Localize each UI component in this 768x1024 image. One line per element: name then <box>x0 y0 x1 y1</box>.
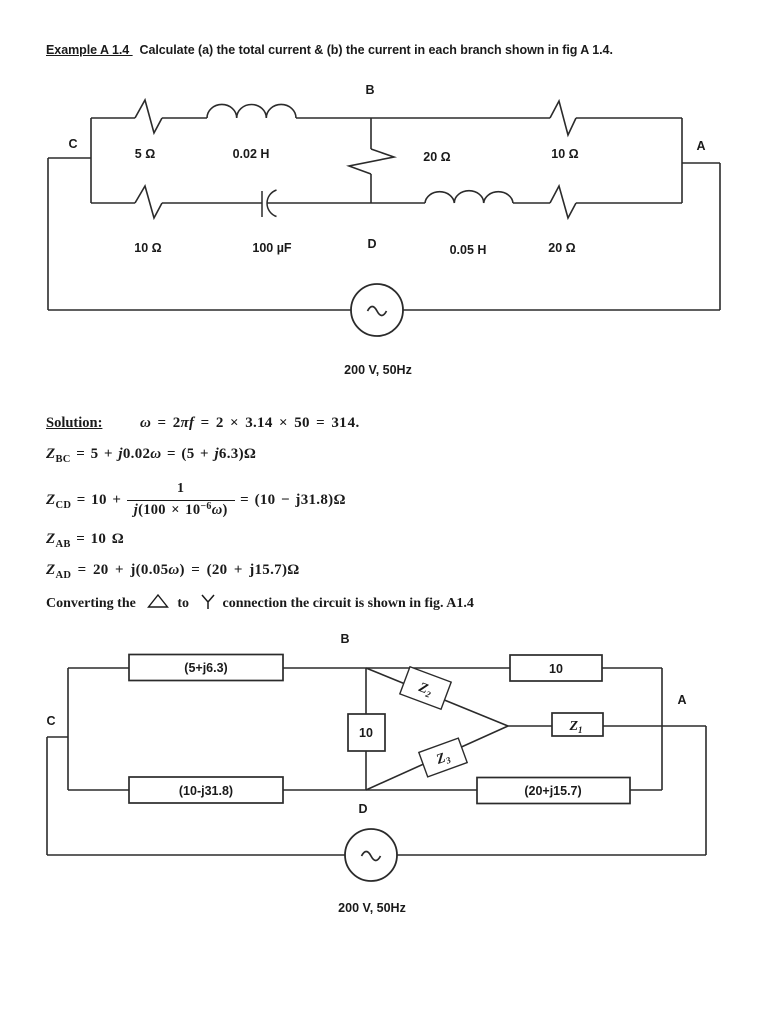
impedance box (5+j6.3) <box>129 655 283 681</box>
inductor 0.02 H <box>207 104 296 118</box>
diagonal wire B to vertex <box>366 668 508 726</box>
AC source 2 sine symbol <box>362 852 381 861</box>
svg-text:10: 10 <box>359 726 373 740</box>
svg-text:B: B <box>365 83 374 97</box>
equation Z_AD <box>46 562 300 579</box>
resistor 5 Ohm <box>135 100 162 133</box>
svg-text:C: C <box>68 137 77 151</box>
svg-text:200 V, 50Hz: 200 V, 50Hz <box>344 363 412 377</box>
converting line with delta and Y symbols <box>46 593 474 612</box>
solution heading <box>46 415 102 432</box>
AC source 200V 50Hz circle <box>351 284 403 336</box>
svg-text:B: B <box>340 632 349 646</box>
wire right rail 2 <box>705 726 707 855</box>
wire top branch segment 4 from node B <box>371 117 550 119</box>
wire bottom branch D to box <box>366 789 477 791</box>
AC source sine symbol <box>368 307 387 316</box>
wire left rail 2 <box>46 737 48 855</box>
diagonal wire D to vertex <box>366 726 508 790</box>
wire top branch mid <box>283 667 510 669</box>
impedance box (10-j31.8) <box>129 777 283 803</box>
svg-text:5 Ω: 5 Ω <box>135 147 155 161</box>
impedance box 10 vertical <box>348 714 385 751</box>
wire right rail <box>719 163 721 310</box>
equation Z_BC <box>46 446 256 463</box>
wire left rail <box>47 158 49 310</box>
equation Z_AB <box>46 531 124 548</box>
svg-text:100 µF: 100 µF <box>252 241 292 255</box>
impedance box Z2 rotated <box>400 667 451 710</box>
equation omega = 2 pi f <box>140 415 360 432</box>
inductor 0.05 H <box>425 191 513 203</box>
svg-text:0.02 H: 0.02 H <box>233 147 270 161</box>
wire bottom loop left <box>48 309 351 311</box>
impedance box 10 top <box>510 655 602 681</box>
wire top branch segment 5 <box>576 117 682 119</box>
svg-text:Z1: Z1 <box>568 719 582 735</box>
wire C stub <box>48 157 91 159</box>
svg-text:20 Ω: 20 Ω <box>548 241 575 255</box>
equation Z_CD with fraction <box>46 481 346 520</box>
wire node B drop <box>370 118 372 149</box>
wire bottom branch mid to D <box>283 789 366 791</box>
AC source 2 circle <box>345 829 397 881</box>
svg-text:10 Ω: 10 Ω <box>134 241 161 255</box>
title <box>46 43 613 57</box>
impedance label Z3 <box>434 749 453 769</box>
svg-text:(10-j31.8): (10-j31.8) <box>179 784 233 798</box>
resistor 20 Ohm bottom right <box>550 186 576 218</box>
svg-text:0.05 H: 0.05 H <box>450 243 487 257</box>
wire middle to node D <box>370 174 372 203</box>
wire bottom branch left <box>68 789 129 791</box>
impedance box (20+j15.7) <box>477 778 630 804</box>
impedance box Z3 rotated <box>419 738 467 777</box>
wire bottom branch segment 4 <box>371 202 425 204</box>
wire bottom loop 2 left <box>47 854 345 856</box>
wire Z1 to right rail <box>603 725 706 727</box>
svg-text:C: C <box>46 714 55 728</box>
svg-text:20 Ω: 20 Ω <box>423 150 450 164</box>
wire bottom branch right <box>630 789 662 791</box>
wire bottom loop right <box>403 309 720 311</box>
impedance label Z2 <box>415 680 434 700</box>
wire bottom branch segment 6 <box>576 202 682 204</box>
wire bottom branch segment 5 <box>513 202 550 204</box>
wire inner right vertical <box>661 668 663 790</box>
wire box to D <box>365 751 367 790</box>
wire B down to box <box>365 668 367 714</box>
resistor 20 Ohm middle vertical <box>349 149 394 174</box>
svg-text:10: 10 <box>549 662 563 676</box>
wire top branch segment 1 <box>91 117 135 119</box>
wire right bridge vertical node A side <box>681 118 683 203</box>
wire left bridge vertical C node <box>90 118 92 203</box>
svg-text:200 V, 50Hz: 200 V, 50Hz <box>338 901 406 915</box>
resistor 10 Ohm bottom left <box>135 186 162 218</box>
wire top branch segment 3 to node B <box>296 117 371 119</box>
svg-text:D: D <box>367 237 376 251</box>
wire bottom branch segment 2 <box>162 202 262 204</box>
svg-text:A: A <box>696 139 705 153</box>
wire top branch left <box>68 667 129 669</box>
wire top branch right <box>602 667 662 669</box>
wire bottom branch segment 1 <box>91 202 135 204</box>
wire C stub 2 <box>47 736 68 738</box>
wire left bridge vertical 2 <box>67 668 69 790</box>
resistor 10 Ohm top right <box>550 101 576 135</box>
wire A stub <box>682 162 720 164</box>
wire bottom loop 2 right <box>397 854 706 856</box>
svg-text:(5+j6.3): (5+j6.3) <box>184 661 227 675</box>
wire vertex to Z1 <box>508 725 552 727</box>
impedance box Z1 <box>552 713 603 736</box>
wire top branch segment 2 <box>162 117 207 119</box>
svg-text:D: D <box>358 802 367 816</box>
svg-text:(20+j15.7): (20+j15.7) <box>524 784 581 798</box>
wire bottom branch segment 3 to node D <box>268 202 372 204</box>
svg-text:A: A <box>677 693 686 707</box>
svg-text:10 Ω: 10 Ω <box>551 147 578 161</box>
capacitor 100 uF <box>262 190 277 217</box>
